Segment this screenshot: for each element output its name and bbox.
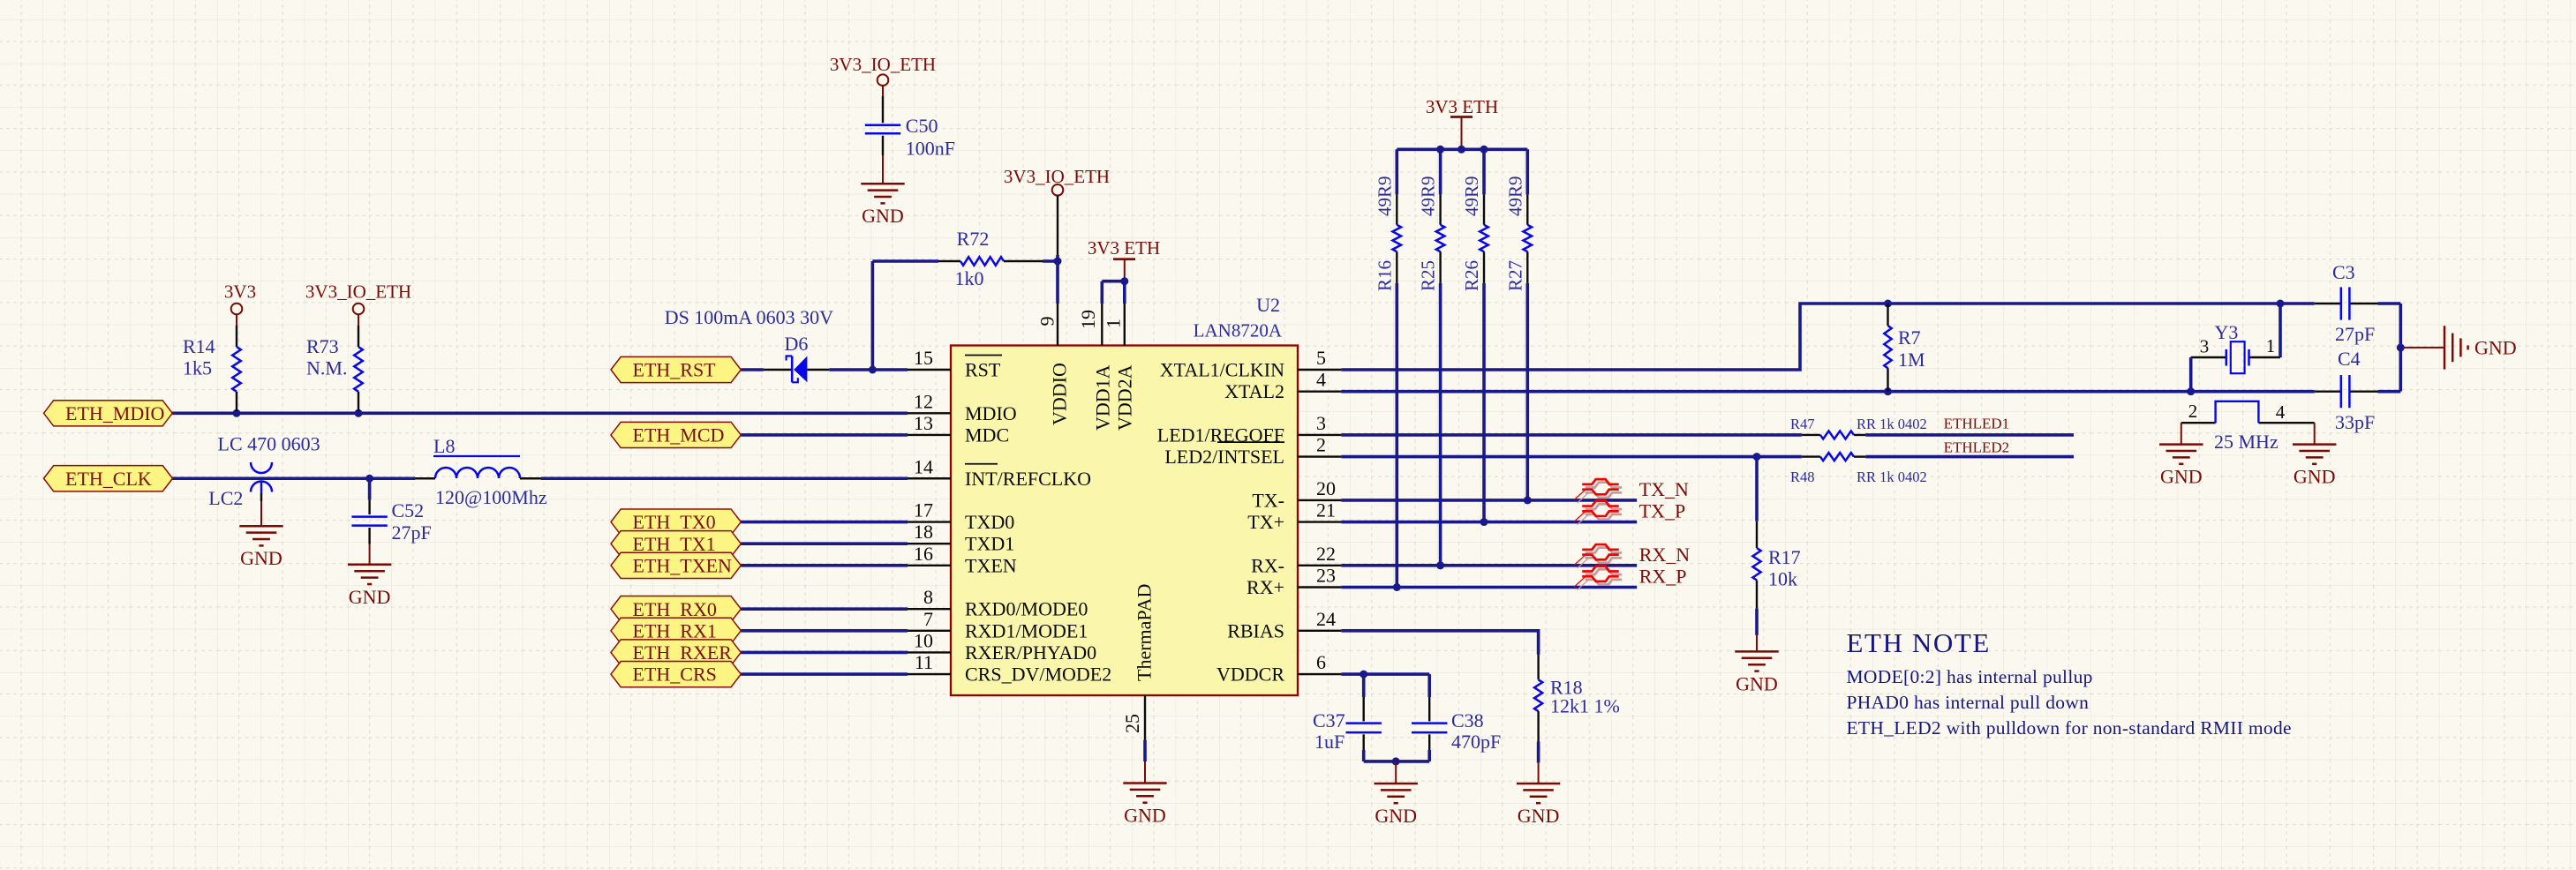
svg-text:RX_N: RX_N	[1639, 544, 1691, 566]
capacitor C3 27pF	[2315, 261, 2378, 345]
resistor R27 49R9	[1504, 149, 1532, 500]
port ETH_MDIO	[44, 401, 173, 426]
resistor R26 49R9	[1461, 149, 1488, 521]
junction C37/C38 gnd	[1392, 757, 1400, 765]
resistor R48 RR 1k 0402	[1790, 453, 1927, 485]
svg-text:RBIAS: RBIAS	[1227, 619, 1284, 641]
U2 pin 21 TX+	[1247, 499, 1341, 534]
svg-text:1: 1	[2266, 335, 2276, 356]
capacitor C52	[351, 478, 431, 544]
svg-text:ETH_MCD: ETH_MCD	[633, 424, 725, 446]
junction VDD2A	[1120, 277, 1128, 285]
resistor R14	[183, 326, 241, 414]
U2 pin 11 CRS_DV/MODE2	[908, 651, 1111, 686]
svg-text:25 MHz: 25 MHz	[2214, 431, 2278, 453]
wire RBIAS net	[1341, 631, 1538, 655]
svg-text:GND: GND	[1736, 672, 1778, 694]
svg-text:GND: GND	[862, 205, 904, 227]
svg-text:ETH_RX1: ETH_RX1	[633, 619, 717, 641]
svg-text:R72: R72	[957, 228, 990, 250]
wire ETH_MDIO net	[172, 411, 908, 415]
junction R16	[1393, 583, 1401, 591]
svg-text:MODE[0:2] has internal pullup: MODE[0:2] has internal pullup	[1847, 666, 2093, 687]
svg-text:VDD1A: VDD1A	[1092, 364, 1114, 431]
wire TX- net	[1341, 499, 1637, 502]
svg-text:16: 16	[914, 543, 933, 565]
capacitor C50	[865, 96, 955, 159]
wire ETH_RST to D6	[741, 368, 764, 371]
wire ETH_MCD net	[741, 433, 908, 437]
svg-text:Y3: Y3	[2215, 321, 2239, 343]
svg-text:R26: R26	[1461, 260, 1482, 291]
U2 pin 13 MDC	[908, 412, 1009, 446]
svg-text:VDD2A: VDD2A	[1114, 364, 1136, 431]
svg-text:INT/REFCLKO: INT/REFCLKO	[965, 468, 1091, 490]
diode D6 (schottky)	[764, 333, 829, 382]
port ETH_CLK	[44, 466, 173, 491]
text ETH NOTE	[1847, 627, 1991, 658]
svg-text:C52: C52	[392, 499, 425, 521]
ground GND (case pin4)	[2293, 423, 2336, 487]
svg-text:7: 7	[923, 608, 933, 630]
junction R7 bottom	[1884, 387, 1892, 395]
U2 pin 9 VDDIO	[1036, 304, 1071, 425]
svg-text:3V3 ETH: 3V3 ETH	[1088, 237, 1160, 259]
U2 pin 4 XTAL2	[1224, 369, 1341, 403]
text note line 2	[1847, 692, 2090, 713]
wire ETH_RX0 net	[741, 607, 908, 611]
svg-text:2: 2	[1316, 434, 1326, 456]
svg-text:12: 12	[914, 390, 933, 412]
svg-text:20: 20	[1316, 477, 1336, 499]
svg-text:5: 5	[1316, 347, 1326, 369]
diff pair directive TX_N	[1574, 479, 1622, 503]
capacitor C4 33pF	[2315, 348, 2378, 433]
U2 pin 19 VDD1A	[1077, 304, 1114, 431]
U2 pin 24 RBIAS	[1227, 608, 1341, 642]
U2 pin 8 RXD0/MODE0	[908, 586, 1088, 620]
junction R73/ETH_MDIO	[355, 409, 363, 417]
text note line 3	[1847, 717, 2292, 739]
net label RX_P	[1639, 566, 1687, 588]
svg-text:R47: R47	[1790, 416, 1815, 432]
svg-text:R27: R27	[1504, 260, 1525, 291]
ground GND (tap, sideways)	[2404, 326, 2517, 369]
U2 pin 1 VDD2A	[1103, 304, 1136, 431]
diff pair directive RX_P	[1574, 566, 1622, 590]
diff pair directive TX_P	[1574, 501, 1622, 525]
U2 pin 25 ThermaPAD	[1121, 584, 1156, 740]
svg-text:RXD1/MODE1: RXD1/MODE1	[965, 619, 1088, 641]
svg-text:ETH_TX1: ETH_TX1	[633, 533, 716, 555]
ground GND (R17)	[1735, 635, 1778, 695]
port ETH_RST	[611, 356, 741, 382]
junction R25	[1436, 561, 1444, 569]
junction R26	[1480, 518, 1488, 526]
svg-text:100nF: 100nF	[906, 137, 955, 159]
svg-text:RX_P: RX_P	[1639, 566, 1687, 588]
svg-text:27pF: 27pF	[392, 521, 432, 544]
wire Y3 pin1 to XTAL1	[2278, 304, 2282, 357]
svg-text:GND: GND	[2160, 466, 2203, 488]
svg-text:RXD0/MODE0: RXD0/MODE0	[965, 598, 1088, 620]
wire C37/C38 bottom rail	[1364, 760, 1430, 763]
svg-text:49R9: 49R9	[1374, 176, 1395, 216]
svg-text:3V3: 3V3	[224, 281, 256, 303]
port ETH_MCD	[611, 422, 741, 447]
svg-text:C50: C50	[906, 115, 938, 137]
svg-text:3V3_IO_ETH: 3V3_IO_ETH	[830, 54, 936, 75]
port ETH_TXEN	[611, 552, 741, 578]
svg-text:3: 3	[1316, 412, 1326, 434]
svg-text:ETH_TXEN: ETH_TXEN	[633, 554, 733, 576]
U2 pin 12 MDIO	[908, 390, 1017, 424]
ferrite bead L8	[415, 435, 547, 508]
svg-text:13: 13	[914, 412, 933, 434]
wire ETH_TXEN net	[741, 564, 908, 567]
power 3V3	[224, 281, 256, 326]
port ETH_RX1	[611, 618, 741, 643]
svg-text:15: 15	[914, 347, 933, 369]
svg-text:GND: GND	[1124, 805, 1166, 827]
U2 pin 2 LED2/INTSEL	[1164, 434, 1341, 468]
junction C37	[1360, 671, 1367, 679]
ground GND (LC2)	[239, 501, 282, 569]
svg-text:RST: RST	[965, 359, 1001, 381]
resistor R72	[938, 228, 1043, 289]
svg-text:LAN8720A: LAN8720A	[1194, 320, 1283, 341]
U2 pin 3 LED1/REGOFF	[1157, 412, 1342, 446]
resistor R25 49R9	[1418, 149, 1445, 566]
svg-text:1M: 1M	[1898, 349, 1925, 371]
svg-text:24: 24	[1316, 608, 1336, 630]
U2 pin 7 RXD1/MODE1	[908, 608, 1088, 642]
svg-text:12k1 1%: 12k1 1%	[1550, 695, 1620, 717]
svg-text:1k5: 1k5	[183, 357, 212, 379]
junction R17/LED2	[1753, 453, 1761, 461]
U2 pin 17 TXD0	[908, 499, 1014, 534]
junction rail R26	[1480, 146, 1488, 154]
svg-text:TX+: TX+	[1247, 511, 1284, 533]
svg-text:ETH_RST: ETH_RST	[633, 359, 717, 381]
svg-text:TXEN: TXEN	[965, 554, 1017, 576]
crystal case pins 2/4 (25 MHz)	[2181, 401, 2315, 453]
svg-text:R25: R25	[1418, 260, 1439, 291]
svg-text:21: 21	[1316, 499, 1336, 521]
svg-text:49R9: 49R9	[1461, 176, 1482, 216]
svg-text:49R9: 49R9	[1418, 176, 1439, 216]
U2 pin 10 RXER/PHYAD0	[908, 629, 1096, 664]
svg-text:D6: D6	[785, 333, 809, 355]
resistor R47 RR 1k 0402	[1790, 416, 1927, 439]
svg-text:ETH_TX0: ETH_TX0	[633, 511, 716, 533]
junction C52/ETH_CLK	[365, 475, 373, 483]
svg-text:PHAD0 has internal pull down: PHAD0 has internal pull down	[1847, 692, 2090, 713]
svg-text:22: 22	[1316, 543, 1336, 565]
svg-text:6: 6	[1316, 651, 1326, 673]
U2 pin 20 TX-	[1252, 477, 1341, 512]
svg-text:11: 11	[915, 651, 933, 673]
U2 pin 16 TXEN	[908, 543, 1017, 577]
wire VDDCR net	[1341, 672, 1429, 676]
svg-text:14: 14	[914, 455, 933, 477]
ground GND (C52)	[348, 544, 391, 608]
U2 pin 18 TXD1	[908, 521, 1014, 555]
svg-text:ThermaPAD: ThermaPAD	[1134, 584, 1156, 681]
svg-text:XTAL2: XTAL2	[1224, 380, 1284, 402]
wire ETH_TX1 net	[741, 542, 908, 545]
svg-text:ETHLED2: ETHLED2	[1944, 439, 2010, 456]
svg-text:3: 3	[2200, 336, 2210, 357]
svg-text:VDDCR: VDDCR	[1216, 664, 1284, 686]
svg-text:17: 17	[914, 499, 933, 521]
wire R72 branch	[872, 261, 1058, 370]
svg-text:TXD0: TXD0	[965, 511, 1014, 533]
capacitor C37 1uF	[1313, 674, 1382, 761]
svg-text:ETH_RX0: ETH_RX0	[633, 598, 717, 620]
diff pair directive RX_N	[1574, 544, 1622, 568]
net label ETHLED1	[1944, 416, 2010, 432]
wire 3V3_ETH rail	[1397, 148, 1527, 152]
svg-text:49R9: 49R9	[1504, 176, 1525, 216]
port ETH_TX1	[611, 531, 741, 557]
svg-text:R16: R16	[1374, 260, 1395, 291]
power 3V3_IO_ETH (left)	[305, 281, 411, 326]
svg-text:RX+: RX+	[1247, 576, 1284, 598]
wire ETH_RXER net	[741, 651, 908, 655]
ground GND (R18)	[1517, 762, 1560, 827]
svg-text:TX_P: TX_P	[1639, 500, 1686, 522]
port ETH_RX0	[611, 596, 741, 622]
svg-text:GND: GND	[2294, 466, 2336, 488]
svg-text:VDDIO: VDDIO	[1049, 363, 1071, 425]
svg-text:ETH_LED2 with pulldown for non: ETH_LED2 with pulldown for non-standard …	[1847, 717, 2292, 739]
svg-text:ETHLED1: ETHLED1	[1944, 416, 2010, 432]
svg-text:ETH NOTE: ETH NOTE	[1847, 627, 1991, 658]
crystal Y3	[2191, 321, 2280, 373]
svg-text:C3: C3	[2332, 261, 2355, 283]
wire ETH_TX0 net	[741, 521, 908, 524]
svg-text:19: 19	[1077, 310, 1099, 329]
svg-text:C38: C38	[1451, 709, 1484, 731]
junction rail R25	[1436, 146, 1444, 154]
junction rail power	[1457, 146, 1465, 154]
resistor R18 12k1	[1534, 655, 1620, 763]
net label TX_N	[1639, 478, 1689, 500]
wire ThermaPAD	[1143, 740, 1147, 761]
svg-text:GND: GND	[349, 586, 391, 608]
svg-text:3V3 ETH: 3V3 ETH	[1426, 96, 1498, 117]
svg-text:10: 10	[914, 629, 933, 651]
wire D6 to pin15	[829, 368, 908, 371]
ground GND (C37/C38)	[1375, 761, 1418, 827]
svg-text:25: 25	[1121, 714, 1143, 733]
svg-text:R14: R14	[183, 335, 215, 357]
svg-text:GND: GND	[1518, 805, 1560, 827]
svg-text:RR 1k 0402: RR 1k 0402	[1857, 469, 1927, 485]
svg-text:1uF: 1uF	[1314, 731, 1344, 753]
junction D6/R72	[869, 366, 877, 374]
svg-text:RX-: RX-	[1251, 554, 1284, 576]
svg-text:R73: R73	[306, 335, 339, 357]
svg-text:DS 100mA 0603 30V: DS 100mA 0603 30V	[665, 306, 833, 328]
svg-text:4: 4	[1316, 369, 1326, 391]
U2 pin 15 RST	[908, 347, 1002, 381]
wire RX+ net	[1341, 586, 1637, 589]
wire VDDIO column	[1056, 261, 1059, 304]
svg-text:RR 1k 0402: RR 1k 0402	[1857, 416, 1927, 432]
svg-text:C4: C4	[2338, 348, 2361, 370]
port ETH_CRS	[611, 662, 741, 687]
svg-text:3V3_IO_ETH: 3V3_IO_ETH	[305, 281, 411, 303]
port ETH_TX0	[611, 509, 741, 535]
svg-text:ETH_RXER: ETH_RXER	[633, 641, 733, 664]
svg-text:LED2/INTSEL: LED2/INTSEL	[1164, 446, 1284, 468]
wire VDD1A/VDD2A	[1102, 281, 1125, 304]
ground GND (ThermaPAD)	[1123, 761, 1166, 827]
svg-text:8: 8	[923, 586, 933, 608]
IC U2 LAN8720A body	[951, 294, 1298, 695]
ground GND (case pin2)	[2159, 423, 2203, 487]
wire XTAL1 net	[1341, 304, 2400, 392]
wire ETH_RX1 net	[741, 629, 908, 633]
resistor R7 1M	[1884, 304, 1924, 392]
wire RX- net	[1341, 564, 1637, 567]
resistor R17 10k	[1752, 457, 1800, 635]
junction Y3 pin3	[2187, 387, 2195, 395]
power 3V3_ETH (rail)	[1426, 96, 1498, 150]
svg-text:RXER/PHYAD0: RXER/PHYAD0	[965, 641, 1096, 664]
U2 pin 5 XTAL1/CLKIN	[1160, 347, 1342, 381]
svg-text:GND: GND	[240, 547, 282, 569]
wire LED2 net	[1341, 455, 2074, 459]
port ETH_RXER	[611, 640, 741, 665]
junction R72/VDDIO	[1054, 258, 1062, 266]
svg-text:U2: U2	[1256, 294, 1280, 316]
svg-text:TX_N: TX_N	[1639, 478, 1689, 500]
svg-text:4: 4	[2276, 401, 2286, 423]
svg-text:23: 23	[1316, 565, 1336, 587]
net label RX_N	[1639, 544, 1691, 566]
svg-text:R17: R17	[1768, 546, 1801, 568]
svg-text:1k0: 1k0	[955, 267, 984, 289]
U2 pin 23 RX+	[1247, 565, 1341, 599]
comment DS 100mA 0603 30V	[665, 306, 833, 328]
svg-text:TX-: TX-	[1252, 489, 1284, 511]
svg-text:GND: GND	[1375, 805, 1417, 827]
net label ETHLED2	[1944, 439, 2010, 456]
svg-text:9: 9	[1036, 317, 1058, 326]
resistor R16 49R9	[1374, 149, 1401, 587]
wire XTAL2 net	[1341, 390, 2400, 394]
svg-text:120@100Mhz: 120@100Mhz	[435, 486, 547, 508]
svg-text:470pF: 470pF	[1451, 731, 1501, 753]
svg-text:CRS_DV/MODE2: CRS_DV/MODE2	[965, 664, 1111, 686]
U2 pin 22 RX-	[1251, 543, 1341, 577]
net label TX_P	[1639, 500, 1686, 522]
svg-text:L8: L8	[433, 435, 455, 457]
power 3V3_IO_ETH (C50)	[830, 54, 936, 96]
svg-text:33pF: 33pF	[2335, 411, 2375, 433]
junction Y3 pin1	[2277, 300, 2285, 308]
wire Y3 pin3 to XTAL2	[2189, 357, 2193, 392]
junction C3/C4 right	[2397, 343, 2405, 351]
wire LED1 net	[1341, 433, 2074, 437]
capacitor C38 470pF	[1412, 674, 1501, 761]
svg-text:C37: C37	[1313, 709, 1345, 731]
svg-text:LC2: LC2	[208, 487, 243, 509]
svg-text:ETH_CLK: ETH_CLK	[65, 468, 152, 490]
svg-text:ETH_CRS: ETH_CRS	[633, 664, 717, 686]
wire TX+ net	[1341, 521, 1637, 524]
svg-text:R48: R48	[1790, 469, 1815, 485]
power 3V3_ETH (VDD1A/VDD2A)	[1088, 237, 1160, 281]
U2 pin 6 VDDCR	[1216, 651, 1341, 686]
U2 pin 14 INT/REFCLKO	[908, 455, 1091, 490]
svg-text:MDC: MDC	[965, 424, 1009, 446]
svg-text:1: 1	[1103, 319, 1125, 328]
svg-text:2: 2	[2188, 401, 2198, 422]
ESD suppressor LC2	[208, 433, 320, 510]
svg-text:XTAL1/CLKIN: XTAL1/CLKIN	[1160, 359, 1284, 381]
svg-text:10k: 10k	[1768, 568, 1797, 590]
resistor R73	[306, 326, 363, 414]
svg-text:ETH_MDIO: ETH_MDIO	[65, 402, 164, 424]
svg-text:27pF: 27pF	[2335, 323, 2375, 345]
svg-text:18: 18	[914, 521, 933, 543]
junction R7 top	[1884, 300, 1892, 308]
ground GND (C50)	[861, 155, 904, 227]
text note line 1	[1847, 666, 2093, 687]
svg-text:MDIO: MDIO	[965, 402, 1017, 424]
junction R27	[1524, 496, 1532, 504]
wire ETH_CLK net	[172, 476, 908, 480]
junction R14/ETH_MDIO	[233, 409, 241, 417]
svg-text:LC 470 0603: LC 470 0603	[218, 433, 320, 455]
wire ETH_CRS net	[741, 672, 908, 676]
power 3V3_IO_ETH (VDDIO)	[1004, 166, 1110, 261]
svg-text:R7: R7	[1898, 326, 1921, 349]
svg-text:GND: GND	[2474, 337, 2517, 359]
svg-text:N.M.: N.M.	[306, 357, 347, 379]
svg-text:TXD1: TXD1	[965, 533, 1014, 555]
